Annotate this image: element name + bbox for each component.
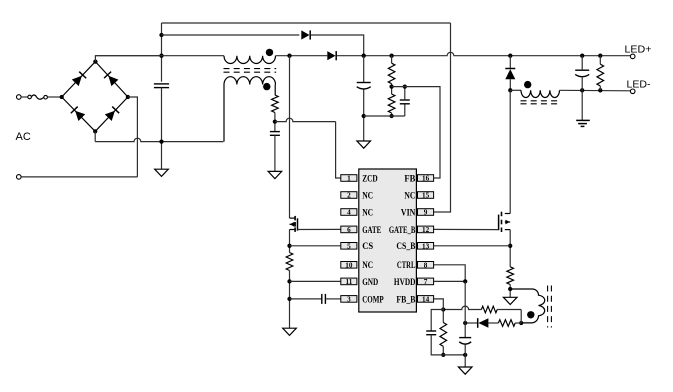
wire [515,322,521,324]
node [580,88,584,92]
resistor R7 [481,306,497,313]
svg-text:4: 4 [347,209,351,217]
resistor R5 [597,64,604,86]
wire [311,35,364,56]
node [159,139,163,143]
pin 4 box [341,209,357,216]
capacitor C4 [357,82,371,84]
wire [48,96,61,98]
svg-text:16: 16 [422,175,430,183]
wire [21,96,27,98]
transistor Q1 [290,217,295,219]
wire [94,131,96,141]
wire [464,281,466,337]
resistor R4 [388,94,395,113]
transistor Q2 [505,213,510,215]
wire [289,271,291,329]
svg-text:FB_B: FB_B [396,295,415,305]
svg-text:LED-: LED- [627,80,651,91]
node [441,353,445,357]
svg-text:9: 9 [424,209,428,217]
wire [581,90,583,120]
pin 3 box [341,296,357,303]
svg-text:NC: NC [362,208,373,218]
wire [560,89,631,92]
wire [434,228,499,230]
wire [509,79,511,90]
diode D1 [301,30,309,39]
ground [357,141,371,148]
wire [464,345,466,367]
wire [21,176,137,178]
wire [363,56,365,83]
wire [363,90,365,142]
transformer T1 primary [224,56,276,64]
wire [336,122,341,178]
svg-text:15: 15 [422,192,430,200]
wire [509,90,511,213]
node [519,321,523,325]
node [463,353,467,357]
svg-text:5: 5 [347,242,351,250]
resistor R8 [498,320,515,327]
node bridge bottom [93,129,97,133]
capacitor C6 [575,69,589,71]
wire [274,85,276,96]
wire [431,310,443,332]
op-amp U1 body [359,169,417,312]
inductor T2 core [521,100,560,102]
svg-text:GND: GND [362,278,378,288]
svg-text:CTRL: CTRL [397,261,416,271]
node [508,287,512,291]
capacitor C2 [270,131,280,133]
pin 5 box [341,243,357,250]
wire [509,230,511,267]
svg-text:AC: AC [16,131,31,143]
fuse F1 [28,95,32,99]
wire [434,280,466,282]
diode D2 [327,51,335,60]
pin 2 box [341,192,357,199]
node [389,84,393,88]
node bridge left [60,95,64,99]
node [362,114,366,118]
transformer T1 core [224,68,277,70]
wire [434,23,451,212]
node [362,54,366,58]
svg-text:CS: CS [362,242,373,252]
ground [155,169,169,176]
inductor T2 aux winding [510,289,545,323]
svg-text:12: 12 [422,226,430,234]
node [580,54,584,58]
diode D3 [505,69,515,79]
pin 6 box [341,226,357,233]
pin 1 box [341,175,357,182]
node [463,279,467,283]
pin 12 box [418,226,434,233]
wire [509,56,511,68]
pin 13 box [418,243,434,250]
node [508,54,512,58]
wire [434,299,444,310]
svg-text:VIN: VIN [401,208,416,218]
svg-text:HVDD: HVDD [394,278,416,288]
inductor T2 aux core [547,286,549,328]
resistor R2 [286,253,293,271]
wire [276,55,328,57]
diode bridge D-B (right-top arm) [108,76,118,86]
wire [289,230,291,253]
node [159,33,163,37]
svg-text:6: 6 [347,226,351,234]
wire [128,97,137,177]
wire [581,56,583,70]
node [508,244,512,248]
wire [520,310,522,324]
wire [95,55,224,57]
wire [404,104,406,116]
node LED- terminal [630,89,635,94]
svg-text:FB: FB [404,174,415,184]
pin 9 box [418,209,434,216]
wire [290,280,341,282]
pin 16 box [418,175,434,182]
wire [391,56,393,64]
node [389,54,393,58]
ground earth [576,119,590,121]
node [287,297,291,301]
wire [325,298,340,300]
wire [223,85,225,142]
wire [599,56,601,64]
svg-text:LED+: LED+ [625,44,652,55]
capacitor C7 [426,330,436,332]
resistor R6 [507,267,514,285]
wire [404,87,406,100]
svg-text:NC: NC [362,191,373,201]
wire [392,87,440,178]
pin 10 box [341,262,357,269]
capacitor C5 [400,99,410,101]
diode D4 [478,318,488,328]
node [159,54,163,58]
node [287,279,291,283]
transformer T1 secondary polarity dot [263,83,270,90]
node AC line input (top terminal) [17,95,22,100]
svg-text:13: 13 [422,242,430,250]
node bridge right [126,95,130,99]
wire [337,52,631,55]
pin 14 box [418,296,434,303]
svg-text:CS_B: CS_B [396,242,415,252]
svg-text:14: 14 [422,296,430,304]
node [403,84,407,88]
capacitor C8 [459,337,471,339]
wire [274,135,276,171]
wire [289,56,291,218]
node [287,54,291,58]
ground [283,328,297,335]
svg-text:11: 11 [346,278,353,286]
wire [442,310,444,323]
node [508,88,512,92]
node [389,114,393,118]
ground [268,171,282,178]
node LED+ terminal [630,54,635,59]
diode bridge D-D (bottom-right arm) [105,111,115,121]
transformer T1 secondary [224,77,276,85]
resistor R9 [440,323,447,347]
svg-text:NC: NC [362,261,373,271]
pin 11 box [341,278,357,285]
wire [290,245,341,247]
svg-text:GATE: GATE [362,226,381,236]
pin 8 box [418,262,434,269]
wire [434,245,511,247]
svg-text:COMP: COMP [362,295,384,305]
wire [95,56,161,62]
svg-text:GATE_B: GATE_B [389,226,416,236]
diode bridge D-C (bottom-left arm) [75,111,85,121]
wire [275,118,336,121]
svg-text:10: 10 [345,261,353,269]
wire [364,115,405,117]
wire [509,285,511,298]
wire [161,23,163,82]
svg-text:NC: NC [404,191,415,201]
node [287,244,291,248]
resistor R3 [388,63,395,83]
wire [488,322,498,324]
inductor T2 aux polarity dot [527,311,534,318]
wire [442,346,444,355]
wire [443,354,465,356]
wire [162,34,300,36]
wire [298,228,341,230]
wire [443,306,481,309]
resistor R1 [272,95,279,113]
node [598,54,602,58]
diode bridge D-A (left-top arm) [72,76,82,86]
wire [431,335,443,355]
node [273,119,277,123]
capacitor C1 [154,83,169,85]
wire [162,22,451,24]
wire [274,113,276,132]
node [463,321,467,325]
svg-text:1: 1 [347,175,351,183]
node bridge top [93,59,97,63]
ground [458,367,472,374]
wire [497,309,521,311]
wire [95,138,223,141]
inductor T2 polarity dot [524,81,531,88]
transformer T1 primary polarity dot [266,49,273,56]
wire [465,322,478,324]
svg-text:ZCD: ZCD [362,174,378,184]
wire [391,113,393,116]
capacitor C3 [321,294,323,304]
wire [510,89,521,91]
svg-text:3: 3 [347,296,351,304]
wire [290,298,322,300]
wire [161,88,163,170]
svg-text:2: 2 [347,192,351,200]
node [441,307,445,311]
node AC bottom terminal [17,175,22,180]
node [598,88,602,92]
pin 7 box [418,278,434,285]
wire [62,62,96,97]
inductor T2 primary [521,90,560,97]
ground [503,297,517,304]
pin 15 box [418,192,434,199]
svg-text:7: 7 [424,278,428,286]
svg-text:8: 8 [424,261,428,269]
wire [434,265,466,282]
